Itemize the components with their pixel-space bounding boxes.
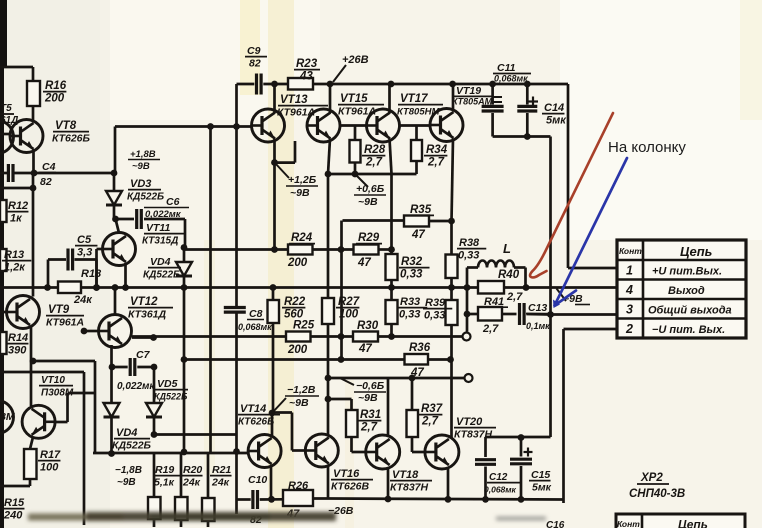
svg-text:R38: R38 [459,237,480,249]
svg-text:R27: R27 [338,296,360,308]
svg-text:+1,2Б: +1,2Б [288,174,317,186]
svg-text:Выход: Выход [668,285,705,297]
svg-text:R28: R28 [364,144,386,156]
svg-text:Цепь: Цепь [678,518,708,528]
svg-text:КД522Б: КД522Б [154,391,188,401]
svg-text:C15: C15 [531,469,550,481]
svg-text:R32: R32 [401,256,423,268]
svg-text:С13: С13 [528,302,547,314]
svg-text:VT17: VT17 [400,93,428,105]
svg-text:R37: R37 [421,403,443,415]
svg-text:КТ361Д: КТ361Д [128,308,167,320]
svg-text:−1,2В: −1,2В [287,384,316,396]
svg-text:Т5: Т5 [0,103,12,114]
svg-text:2,7: 2,7 [482,323,499,335]
svg-text:0,33: 0,33 [400,268,423,280]
svg-text:−1,8В: −1,8В [115,465,142,476]
svg-text:VT11: VT11 [146,222,170,234]
svg-text:200: 200 [44,92,65,104]
svg-text:КД522Б: КД522Б [112,439,152,451]
svg-text:R33: R33 [400,296,420,308]
svg-text:−0,6Б: −0,6Б [356,380,385,392]
svg-text:R34: R34 [426,144,448,156]
svg-text:1,2к: 1,2к [4,261,26,273]
svg-text:КТ805АМ: КТ805АМ [452,97,493,107]
svg-text:VD4: VD4 [150,256,171,268]
svg-text:VD5: VD5 [157,378,178,390]
svg-text:2,7: 2,7 [506,291,523,303]
svg-text:VD3: VD3 [130,178,151,190]
svg-text:На колонку: На колонку [608,139,686,156]
svg-text:~9В: ~9В [358,196,378,208]
svg-text:1: 1 [626,264,633,278]
svg-text:R19: R19 [155,464,174,476]
svg-text:VT19: VT19 [456,85,481,97]
svg-text:С6: С6 [166,196,180,208]
svg-text:R17: R17 [40,449,61,461]
svg-text:8М: 8М [0,411,15,423]
svg-text:0,068мк: 0,068мк [238,322,272,332]
svg-text:200: 200 [287,257,308,269]
svg-text:VT9: VT9 [48,304,70,316]
svg-text:240: 240 [3,509,23,521]
svg-text:Цепь: Цепь [680,244,712,259]
svg-text:200: 200 [287,344,308,356]
svg-text:КТ961А: КТ961А [338,105,376,117]
svg-text:100: 100 [40,461,59,473]
svg-text:С16: С16 [546,520,565,528]
svg-text:47: 47 [357,257,371,269]
svg-text:C4: C4 [42,161,56,173]
svg-text:R18: R18 [81,268,102,280]
svg-text:82: 82 [40,176,52,188]
svg-text:R25: R25 [293,320,315,332]
svg-text:C8: C8 [249,308,263,320]
svg-text:Общий выхода: Общий выхода [648,305,732,317]
svg-text:R15: R15 [4,497,25,509]
svg-text:390: 390 [8,344,27,356]
svg-text:+0,6Б: +0,6Б [356,183,385,195]
svg-text:R26: R26 [288,480,309,492]
svg-text:4: 4 [625,283,633,297]
svg-text:+1,8В: +1,8В [130,149,156,160]
svg-text:R29: R29 [358,232,380,244]
svg-text:R23: R23 [296,58,318,70]
svg-text:~9В: ~9В [289,397,309,409]
svg-text:L: L [503,241,511,256]
svg-text:47: 47 [410,367,424,379]
svg-text:C5: C5 [77,234,92,246]
svg-text:Конт.: Конт. [619,246,644,256]
svg-text:R24: R24 [291,232,313,244]
svg-text:24к: 24к [73,294,93,306]
svg-text:0,068мк: 0,068мк [494,74,528,84]
svg-text:VT16: VT16 [333,468,360,480]
svg-text:КТ626Б: КТ626Б [238,416,274,427]
svg-text:Конт: Конт [617,519,640,528]
svg-text:1к: 1к [10,212,23,224]
svg-text:VT20: VT20 [456,416,483,428]
svg-text:КТ837Н: КТ837Н [390,481,429,493]
svg-text:R13: R13 [4,249,24,261]
svg-text:КТ961А: КТ961А [277,106,315,118]
svg-text:R12: R12 [8,200,28,212]
svg-text:VT18: VT18 [392,469,419,481]
svg-text:C11: C11 [497,62,516,74]
svg-text:−U пит. Вых.: −U пит. Вых. [652,324,725,336]
svg-text:VT12: VT12 [130,296,158,308]
svg-text:VD4: VD4 [116,427,137,439]
svg-text:2,7: 2,7 [365,156,383,168]
svg-text:2,7: 2,7 [360,421,378,433]
svg-text:R40: R40 [498,269,520,281]
svg-text:2,7: 2,7 [421,415,439,427]
svg-text:СНП40-3В: СНП40-3В [629,488,685,500]
svg-text:0,33: 0,33 [399,308,420,320]
svg-text:+U пит.Вых.: +U пит.Вых. [652,266,722,278]
svg-text:C12: C12 [489,472,508,483]
svg-text:C7: C7 [136,349,151,361]
svg-text:C10: C10 [248,474,267,486]
svg-text:П308М: П308М [41,387,74,398]
svg-text:R16: R16 [45,80,67,92]
svg-text:R41: R41 [484,296,504,308]
svg-text:5,1к: 5,1к [154,476,175,488]
svg-text:VT13: VT13 [280,94,308,106]
svg-text:КД522Б: КД522Б [127,191,164,202]
svg-text:VT8: VT8 [55,120,77,132]
svg-text:R14: R14 [8,332,28,344]
svg-text:~9В: ~9В [358,392,378,404]
svg-text:R21: R21 [212,464,231,476]
svg-text:~9В: ~9В [290,187,310,199]
svg-text:5мк: 5мк [546,114,567,126]
svg-text:0,022мк: 0,022мк [145,209,182,220]
svg-text:~9В: ~9В [117,477,136,488]
svg-text:3: 3 [626,303,633,317]
svg-text:47: 47 [411,229,425,241]
svg-text:24к: 24к [211,476,230,488]
svg-text:КТ805НМ: КТ805НМ [397,106,440,117]
svg-text:82: 82 [249,57,261,69]
svg-text:2: 2 [625,322,633,336]
svg-text:0,1мк: 0,1мк [526,321,550,331]
svg-text:КТ315Д: КТ315Д [142,235,178,246]
svg-text:КТ626Б: КТ626Б [52,132,91,144]
svg-text:КД522Б: КД522Б [143,269,180,280]
svg-text:24к: 24к [182,476,201,488]
svg-text:R30: R30 [357,320,379,332]
svg-text:R22: R22 [284,296,306,308]
svg-text:R39: R39 [425,297,446,309]
svg-text:R36: R36 [409,342,431,354]
svg-text:47: 47 [358,343,372,355]
svg-text:+26В: +26В [342,54,369,66]
svg-text:0,022мк: 0,022мк [117,381,155,392]
svg-text:VT15: VT15 [340,93,368,105]
svg-text:3,3: 3,3 [77,246,92,258]
svg-text:ХР2: ХР2 [640,472,663,484]
svg-text:VT14: VT14 [240,403,266,415]
svg-text:С14: С14 [544,102,564,114]
svg-text:5мк: 5мк [532,481,552,493]
svg-text:100: 100 [339,308,359,320]
svg-text:0,33: 0,33 [458,249,479,261]
svg-text:VT10: VT10 [41,375,65,386]
svg-text:0,068мк: 0,068мк [484,484,517,494]
svg-text:61Д: 61Д [0,115,18,126]
svg-text:C9: C9 [247,45,261,57]
svg-text:КТ626В: КТ626В [331,480,370,492]
svg-text:2,7: 2,7 [427,156,445,168]
svg-text:КТ961А: КТ961А [46,316,84,328]
svg-text:R31: R31 [360,409,381,421]
svg-text:КТ837Н: КТ837Н [454,428,493,440]
svg-text:R20: R20 [183,464,202,476]
svg-text:~9В: ~9В [132,161,150,172]
svg-text:R35: R35 [410,204,432,216]
svg-text:0,33: 0,33 [424,309,445,321]
svg-text:43: 43 [299,70,313,82]
